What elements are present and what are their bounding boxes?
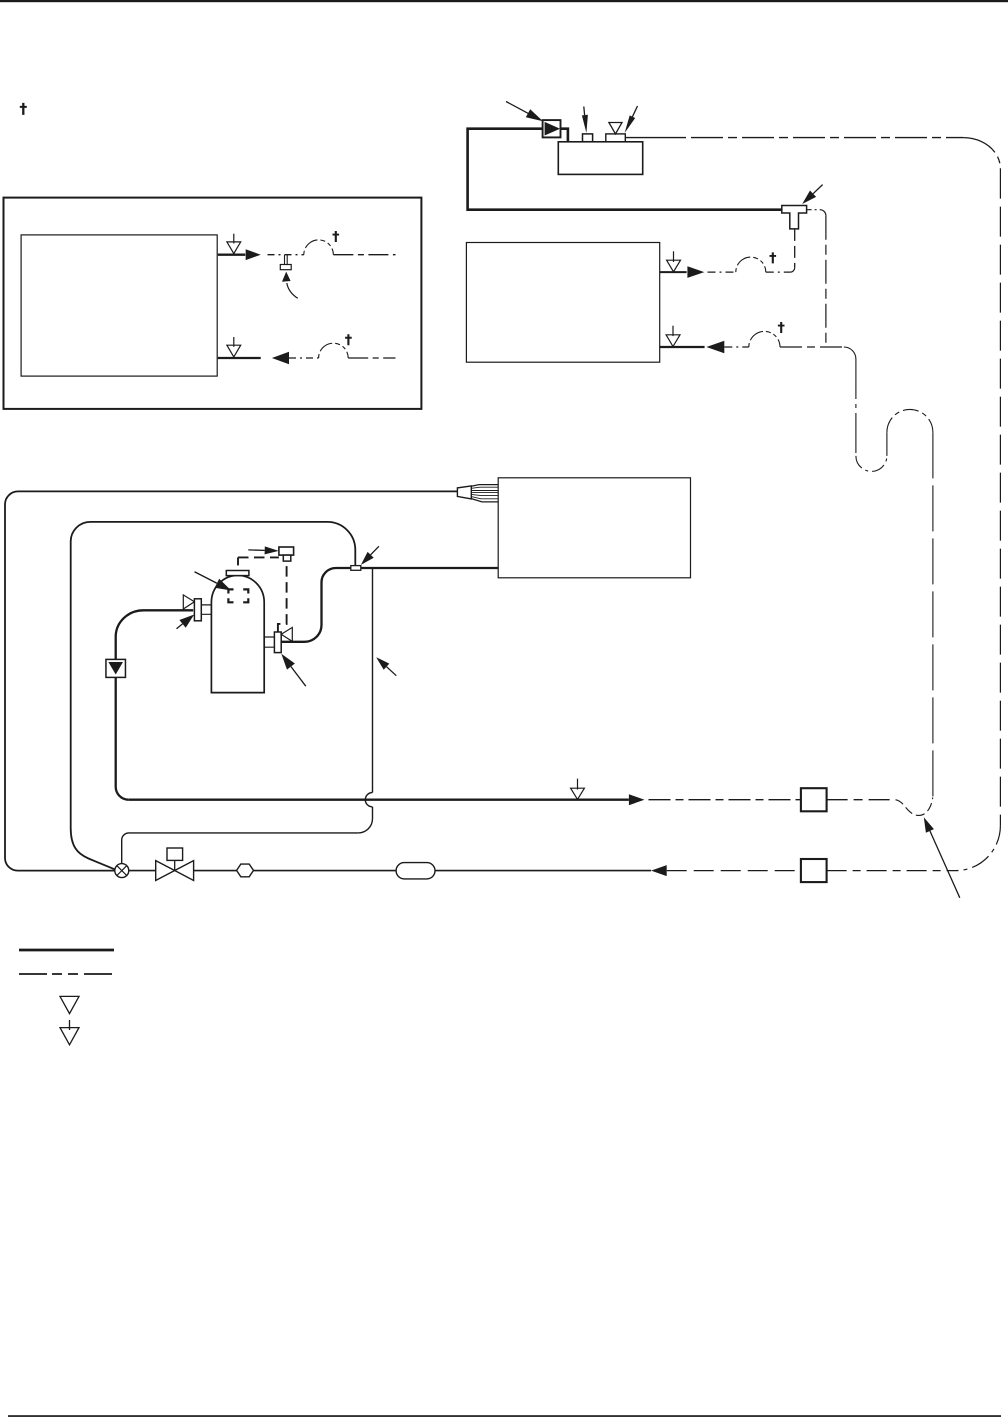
annotation arrow to relief valve (291, 667, 306, 687)
wire: sag hook joining supply line (896, 798, 933, 816)
spray nozzle fitting (457, 486, 471, 499)
annotation arrow to union box (506, 102, 528, 114)
wire: upper port chain line (708, 271, 736, 273)
wire: corner down into trap (844, 347, 856, 359)
inset heater unit box (21, 235, 217, 376)
page bottom rule (8, 1415, 1001, 1417)
flow arrow left on return line (651, 865, 667, 876)
flow arrow right on unit upper port (687, 266, 704, 278)
dagger on inset cold line (345, 334, 352, 345)
annotation arrow to coupling (371, 546, 379, 555)
control unit box (558, 142, 642, 175)
curved annotation arrow to vacuum relief fitting (287, 283, 298, 298)
wire: trap middle vertical (886, 432, 888, 456)
heat pump unit box (466, 243, 659, 363)
hexagon fitting (237, 864, 254, 877)
wire: inset cold chain line (289, 357, 319, 359)
relief valve on tank right (264, 637, 274, 647)
funnel fitting on control unit (606, 134, 626, 142)
wire: upper port chain to corner (766, 271, 791, 273)
wire: thick pipe from left valve down (116, 610, 194, 659)
wire: recirculation horizontal to left (122, 833, 359, 864)
wire: right vertical drop line (999, 169, 1001, 826)
union square on hot supply (801, 788, 827, 811)
vent arrow symbol on inset cold inlet (233, 337, 235, 347)
annotation arrow to left valve (177, 624, 183, 629)
wire: field piping vertical with hop (372, 568, 374, 793)
coupling fitting (351, 566, 361, 571)
sensor fitting block (279, 547, 294, 555)
legend solid line sample (19, 949, 114, 952)
legend phantom line sample (19, 973, 114, 975)
check valve (106, 659, 126, 677)
capsule expansion fitting (396, 863, 435, 879)
wire: pipe left of coupling (281, 568, 350, 642)
wire: bottom-right sweep bend (955, 825, 1001, 871)
wire: unit upper port solid (660, 271, 687, 273)
storage unit box (498, 478, 690, 578)
pipe hump on lower port line (749, 331, 780, 347)
wire: elbow from union into control unit (561, 129, 568, 142)
vent arrow on unit lower port (672, 326, 674, 336)
wire: return dash line to union (667, 870, 801, 872)
tee fitting (782, 206, 807, 229)
vent arrow on hot supply run (577, 779, 579, 790)
union square on return line (801, 859, 827, 882)
wire: lower port chain to corner (780, 346, 844, 348)
pipe hump on inset cold line (319, 343, 349, 358)
wire: horizontal dashed control line (238, 556, 279, 558)
dagger on upper port line (770, 252, 777, 263)
pipe hump on inset hot line (304, 240, 334, 255)
legend open triangle symbol (60, 996, 79, 1013)
flow arrow left on inset cold inlet (272, 352, 289, 364)
wire: inset hot outlet solid (218, 254, 246, 256)
wire: trap top inverted U bend (887, 409, 933, 432)
small port square on control unit (583, 134, 593, 142)
inset outer border box (4, 198, 422, 409)
wire: hot supply horizontal thick run (129, 799, 629, 801)
wire: trap bottom U bend (856, 456, 887, 472)
wire: vertical dashed drop from tee to return line (825, 216, 827, 346)
wire: tee right branch chain (807, 209, 820, 211)
gate valve with actuator (156, 861, 194, 881)
wire: discharge phantom line to right (691, 137, 963, 139)
wire: hot supply chain line to union (649, 799, 801, 801)
nozzle spray fan lines (471, 485, 498, 487)
wire: corner up to tee stem (790, 268, 794, 272)
vacuum relief fitting on inset hot line (285, 255, 288, 265)
annotation arrow to sensor fitting (248, 549, 264, 552)
wire: hot supply dash line to sag hook (827, 799, 896, 801)
wire: dashed drop to relief valve (278, 561, 287, 632)
tank top cap fitting (226, 571, 249, 576)
tank outline (211, 575, 264, 692)
tank left valve (183, 595, 194, 609)
annotation arrow to funnel (632, 106, 637, 117)
wire: inset hot outlet chain line (268, 254, 304, 256)
wire: corner below tee branch (820, 210, 826, 216)
annotation arrow to port square (583, 107, 586, 116)
wire: top-right corner bend (963, 138, 1000, 169)
flow arrow left on unit lower port (706, 341, 724, 353)
pipe hump on upper port line (736, 257, 766, 272)
flow arrow right on hot supply run (629, 794, 645, 805)
wire: inset cold chain line right (348, 357, 395, 359)
dagger on lower port line (778, 322, 785, 333)
page top rule (0, 0, 1008, 2)
wire: inner loop merge curve into return (71, 828, 117, 870)
wire: thick pipe below check valve to supply run (116, 677, 129, 799)
wire: unit lower port solid (660, 346, 705, 348)
annotation arrow to field piping vertical (387, 667, 397, 676)
vent arrow on unit upper port (673, 251, 675, 262)
wire: inner loop top and left (71, 522, 356, 828)
wire: return chain line to right sweep (827, 870, 955, 872)
union box with flow arrow (543, 120, 561, 137)
annotation arrow to tank sensor square (195, 572, 217, 583)
wire: thick supply loop top-left (466, 129, 782, 210)
wire: outer loop (top edge, left edge, bottom corner) (5, 491, 457, 870)
wire: inset hot chain line right (333, 254, 395, 256)
annotation arrow to sag hook junction (930, 831, 960, 898)
wire: trap right vertical drop (932, 432, 934, 797)
annotation arrow to tee fitting (813, 185, 823, 194)
legend vent arrow symbol (69, 1020, 71, 1030)
vent arrow symbol on inset hot outlet (233, 234, 235, 244)
wire: thick inlet from coupling to storage unit (361, 567, 498, 569)
sensor dashed square inside tank (228, 589, 248, 602)
wire: trap left vertical (855, 359, 857, 456)
wire: lower port chain line (724, 346, 749, 348)
wire: discharge line solid from funnel (625, 137, 686, 139)
dagger on inset hot line (333, 231, 340, 242)
wire: dashed stub above cap (237, 557, 239, 570)
drain tee circle with cross (115, 864, 129, 878)
flow arrow right on inset hot outlet (246, 249, 261, 260)
wire: inset cold inlet solid (218, 357, 261, 359)
dagger footnote mark top-left (20, 103, 27, 115)
wire: return line segments (129, 870, 651, 872)
